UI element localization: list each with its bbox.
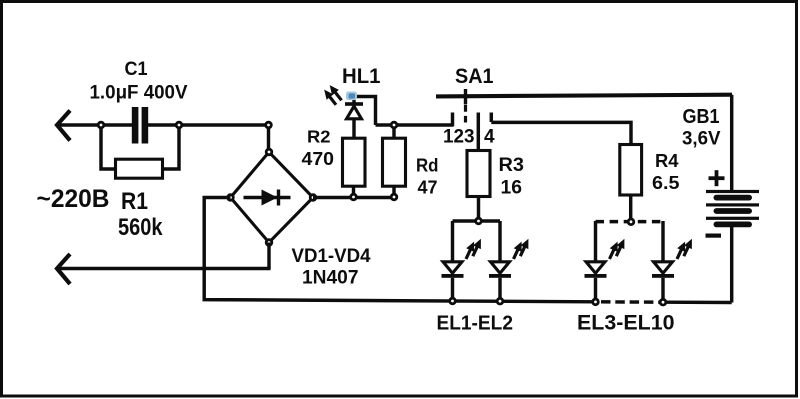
- svg-text:6.5: 6.5: [652, 173, 680, 193]
- svg-text:GB1: GB1: [683, 106, 720, 128]
- svg-text:1N407: 1N407: [302, 267, 359, 289]
- svg-text:VD1-VD4: VD1-VD4: [292, 245, 371, 267]
- svg-text:EL3-EL10: EL3-EL10: [577, 311, 675, 335]
- svg-text:470: 470: [302, 148, 335, 169]
- svg-text:R4: R4: [655, 151, 679, 171]
- svg-text:560k: 560k: [118, 214, 163, 241]
- svg-text:Rd: Rd: [416, 156, 439, 176]
- svg-text:123: 123: [443, 127, 475, 148]
- svg-text:1.0μF 400V: 1.0μF 400V: [90, 81, 188, 103]
- svg-text:C1: C1: [125, 58, 148, 80]
- svg-text:R3: R3: [499, 155, 525, 176]
- svg-text:HL1: HL1: [342, 65, 381, 88]
- svg-text:EL1-EL2: EL1-EL2: [437, 313, 514, 335]
- svg-text:~220B: ~220B: [37, 185, 110, 213]
- svg-text:R2: R2: [307, 127, 331, 147]
- svg-text:3,6V: 3,6V: [682, 129, 721, 150]
- svg-text:R1: R1: [121, 188, 148, 215]
- svg-text:16: 16: [501, 178, 523, 199]
- svg-text:SA1: SA1: [455, 65, 494, 88]
- svg-text:47: 47: [418, 178, 438, 198]
- svg-text:4: 4: [484, 127, 495, 148]
